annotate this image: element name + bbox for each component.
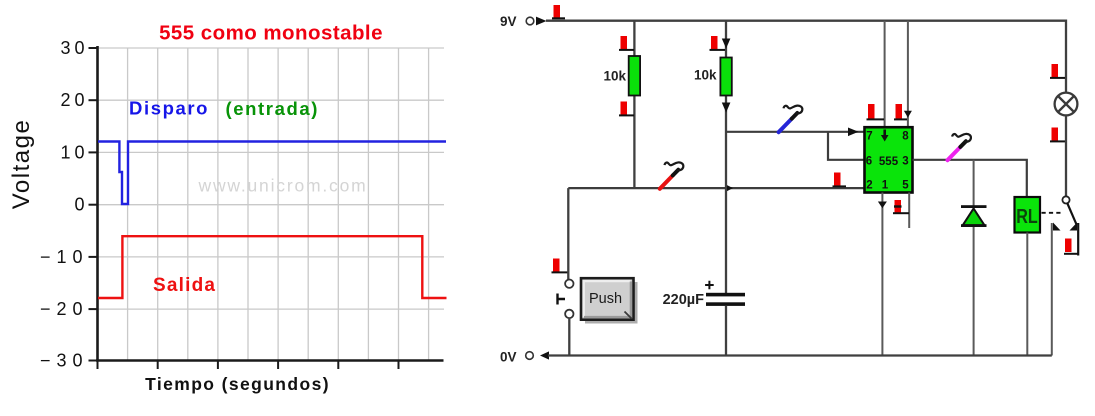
svg-text:10k: 10k <box>603 69 626 84</box>
current arrow down on pin8 column <box>904 111 912 118</box>
wire diode column <box>973 160 975 356</box>
svg-text:Disparo: Disparo <box>129 98 209 119</box>
red mark above push button <box>552 259 570 273</box>
relay switch right contact arrow <box>1070 223 1078 231</box>
svg-text:5: 5 <box>902 180 909 192</box>
svg-text:10k: 10k <box>694 68 717 83</box>
probe (red) on trigger node <box>660 162 684 188</box>
svg-text:220µF: 220µF <box>663 292 705 308</box>
svg-text:9V: 9V <box>500 14 517 29</box>
0V terminal <box>526 352 534 360</box>
capacitor C1 plus sign <box>705 281 714 290</box>
diode D1 anode base bar <box>961 224 987 227</box>
lamp L1 <box>1055 93 1078 116</box>
push button body <box>581 278 634 320</box>
dashed link relay to switch <box>1042 212 1063 214</box>
push button bevel dark <box>584 282 631 318</box>
wire R2/C column from rail to capacitor <box>725 21 727 294</box>
current arrow down into R2 <box>722 39 731 49</box>
current arrow below R2 <box>722 103 731 113</box>
current arrow into pin 7 <box>848 128 859 137</box>
svg-text:10: 10 <box>60 142 88 162</box>
wire threshold node: R2 to pin7 <box>726 131 864 133</box>
red mark at pin 4 <box>867 104 885 119</box>
svg-text:Salida: Salida <box>153 275 216 296</box>
wire pin5 stub <box>908 193 910 229</box>
x ticks <box>98 361 399 369</box>
diode D1 cathode bar <box>961 205 987 208</box>
capacitor C1 top plate <box>706 293 745 297</box>
push button corner fold <box>625 312 632 319</box>
wire right contact stub <box>1077 223 1079 256</box>
svg-text:−20: −20 <box>40 299 89 319</box>
svg-text:(entrada): (entrada) <box>226 98 320 119</box>
x axis <box>96 359 444 362</box>
red mark at pin 8 <box>894 104 907 119</box>
svg-text:1: 1 <box>882 180 889 192</box>
9V terminal <box>526 17 534 25</box>
op IC U1 555 body <box>865 127 913 192</box>
red mark below R1 <box>619 102 634 116</box>
wire trigger node: button to pin2 <box>568 187 864 189</box>
red trace (Salida) <box>98 236 447 298</box>
relay coil RL body <box>1015 197 1041 233</box>
svg-text:6: 6 <box>866 156 872 168</box>
wire left contact to 0V rail <box>1051 223 1053 356</box>
wire bottom 0V rail <box>548 354 1052 356</box>
svg-text:Push: Push <box>589 291 622 307</box>
current arrow out of 0V rail <box>540 351 549 359</box>
red mark above R2 <box>710 36 726 50</box>
svg-text:0: 0 <box>74 195 88 215</box>
diode D1 triangle <box>963 209 985 226</box>
red mark at pin 5 <box>893 200 909 214</box>
chart horizontal gridlines <box>98 48 444 309</box>
svg-text:20: 20 <box>60 90 88 110</box>
red mark at switch contact <box>1064 239 1079 254</box>
current arrow down on pin1 column <box>878 202 887 209</box>
wire capacitor to 0V rail <box>725 306 727 356</box>
red mark above lamp <box>1050 64 1065 78</box>
svg-text:Tiempo (segundos): Tiempo (segundos) <box>145 374 330 394</box>
svg-text:3: 3 <box>902 156 908 168</box>
wire push switch column top <box>567 188 569 279</box>
svg-text:30: 30 <box>60 38 88 58</box>
relay switch left contact arrow <box>1053 223 1061 231</box>
svg-text:Voltage: Voltage <box>8 119 35 210</box>
wire push switch to 0V rail <box>568 318 570 355</box>
svg-text:555: 555 <box>879 156 899 168</box>
red mark at pin 2 <box>833 173 847 187</box>
svg-text:0V: 0V <box>500 350 517 365</box>
wire pin1 column to 0V rail <box>881 193 883 356</box>
red probe-clip mark on top rail <box>552 5 565 18</box>
probe (blue) on threshold node <box>779 106 803 133</box>
push switch SW1 top terminal <box>565 280 573 288</box>
pin labels row top 7 4 8 <box>866 131 910 192</box>
wire lamp to switch <box>1065 115 1067 196</box>
wire R1 column from rail to trigger node <box>633 21 635 188</box>
y tick labels <box>40 38 89 371</box>
svg-text:RL: RL <box>1016 206 1038 228</box>
red mark above R1 <box>619 36 634 50</box>
resistor R2 10k body <box>720 58 731 96</box>
current arrow down into pin 4 <box>883 130 886 137</box>
svg-text:−30: −30 <box>40 351 89 371</box>
probe (magenta) on output node <box>948 134 971 160</box>
svg-text:2: 2 <box>866 180 872 192</box>
svg-text:www.unicrom.com: www.unicrom.com <box>198 176 368 196</box>
capacitor C1 bottom plate <box>706 302 745 306</box>
y ticks <box>89 48 98 361</box>
wire pin3 output node <box>913 160 1027 197</box>
svg-text:−10: −10 <box>40 247 89 267</box>
red mark below lamp <box>1050 128 1065 142</box>
svg-text:8: 8 <box>902 131 909 143</box>
wire pin8 column <box>907 21 909 128</box>
resistor R1 10k body <box>629 56 640 96</box>
svg-text:7: 7 <box>866 131 872 143</box>
chart vertical gridlines <box>128 48 429 361</box>
wire top rail <box>546 21 1066 93</box>
push button shadow <box>585 282 638 324</box>
svg-text:555 como monostable: 555 como monostable <box>159 22 383 45</box>
wire pin4 column <box>884 21 886 128</box>
push switch actuator bar <box>558 294 566 305</box>
blue trace (Disparo) <box>98 142 446 205</box>
current arrow into 9V rail <box>536 17 547 26</box>
small arrow on trigger wire at C column <box>727 185 733 191</box>
y axis <box>96 46 99 361</box>
relay switch pivot terminal <box>1062 196 1069 203</box>
push switch SW1 bottom terminal <box>565 310 573 318</box>
wire stub pins 7-6 tie <box>828 132 864 160</box>
push button bevel light <box>584 281 631 317</box>
relay switch blade <box>1067 203 1076 224</box>
wire relay to 0V rail <box>1026 233 1028 356</box>
